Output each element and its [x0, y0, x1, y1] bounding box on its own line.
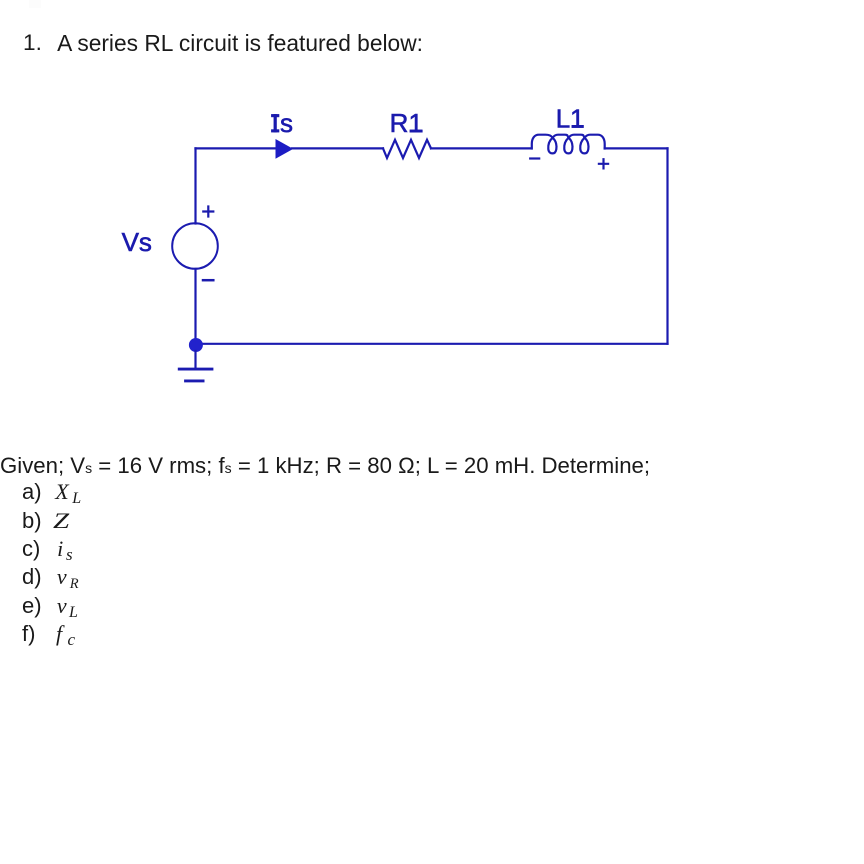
inductor plus sign	[599, 159, 608, 168]
list d) letter	[22, 566, 42, 588]
wire: top-left horizontal (left vertical to arrow)	[196, 147, 276, 149]
title line	[23, 32, 42, 55]
svg-text:1: 1	[409, 108, 423, 138]
given line	[0, 455, 650, 477]
list f) letter	[22, 623, 35, 645]
ground stem	[194, 351, 196, 368]
source Vs circle	[172, 223, 218, 269]
ground bar 2	[184, 379, 204, 382]
source minus sign	[203, 279, 213, 282]
list c) math is	[57, 538, 73, 562]
label Is: I stem	[274, 114, 277, 132]
svg-text:Vs: Vs	[122, 227, 152, 257]
inductor minus sign	[530, 157, 539, 159]
wire: right vertical	[666, 148, 668, 343]
wire: resistor to inductor	[431, 147, 532, 149]
list e) letter	[22, 595, 42, 617]
label L1: base bar of 1	[572, 125, 584, 127]
list b) math Z	[53, 510, 65, 532]
ground bar 1	[178, 368, 214, 371]
source plus sign	[203, 207, 213, 217]
faint scan artifact top-left	[29, 0, 41, 8]
wire: source bottom to node	[194, 269, 196, 338]
svg-text:L: L	[556, 104, 570, 134]
svg-text:s: s	[280, 108, 293, 138]
list c) letter	[22, 538, 40, 560]
svg-text:R: R	[390, 108, 409, 138]
inductor L1	[532, 135, 605, 154]
list a) math XL	[55, 481, 81, 506]
list a) letter	[22, 481, 42, 503]
wire: left vertical above source	[194, 148, 196, 223]
node junction dot	[189, 338, 203, 352]
wire: bottom horizontal	[196, 343, 668, 345]
label Is: I bottom serif	[271, 130, 279, 133]
list f) math fc	[56, 623, 75, 647]
wire: inductor to top-right corner	[605, 147, 668, 149]
list e) math vL	[57, 595, 78, 620]
label R1: base bar of 1	[410, 130, 422, 132]
resistor R1	[383, 140, 431, 158]
list b) letter	[22, 510, 42, 532]
list d) math vR	[57, 566, 79, 591]
current arrow Is	[276, 139, 294, 159]
wire: arrow to resistor	[292, 147, 383, 149]
label Is: I top serif	[271, 114, 279, 117]
svg-text:1: 1	[570, 104, 584, 134]
